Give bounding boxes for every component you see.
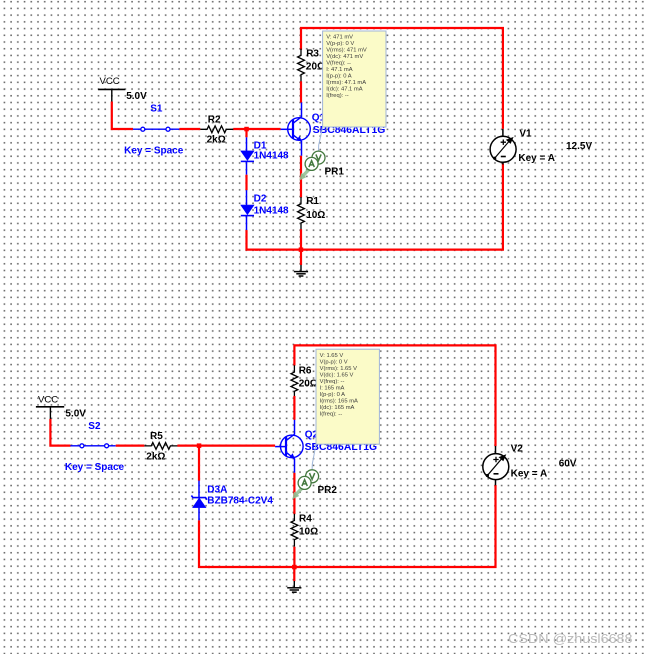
wire S1 to R2 xyxy=(179,128,200,130)
svg-text:V(dc): 1.65 V: V(dc): 1.65 V xyxy=(320,372,354,378)
transistor Q1 SBC846ALT1G xyxy=(288,102,311,156)
svg-text:VCC: VCC xyxy=(100,76,120,87)
resistor R3 body xyxy=(298,49,305,82)
svg-text:Key = A: Key = A xyxy=(511,469,548,480)
svg-text:R2: R2 xyxy=(208,115,221,126)
svg-text:I(rms): 165 mA: I(rms): 165 mA xyxy=(320,398,358,404)
power VCC symbol (bottom) xyxy=(36,407,64,419)
svg-text:R4: R4 xyxy=(299,514,312,525)
measurement box PR2 xyxy=(316,349,379,444)
resistor R5 body xyxy=(144,443,177,450)
svg-text:Key = Space: Key = Space xyxy=(124,145,184,156)
junction node at D3A branch xyxy=(197,443,202,448)
wire VCC to switch S2 xyxy=(50,419,70,446)
wire R2 to base node xyxy=(233,128,280,130)
D1 lower lead (blue) xyxy=(246,161,248,174)
D2 lower lead (blue) xyxy=(246,216,248,231)
svg-text:VCC: VCC xyxy=(38,395,58,406)
svg-text:10Ω: 10Ω xyxy=(306,210,325,221)
svg-text:I(freq): --: I(freq): -- xyxy=(326,93,349,99)
wire bottom rail (top circuit) xyxy=(255,164,503,250)
D3A upper lead (blue) xyxy=(198,481,200,498)
svg-text:I(rms): 47.1 mA: I(rms): 47.1 mA xyxy=(326,80,366,86)
ground symbol (top) xyxy=(294,265,308,276)
resistor R1 body xyxy=(298,197,305,230)
wire emitter down (Q2) xyxy=(293,473,295,514)
svg-text:V(p-p): 0 V: V(p-p): 0 V xyxy=(326,41,354,47)
svg-text:D3A: D3A xyxy=(207,484,227,495)
svg-text:1N4148: 1N4148 xyxy=(254,206,289,217)
svg-text:V: 1.65 V: V: 1.65 V xyxy=(320,353,344,359)
svg-text:I: 165 mA: I: 165 mA xyxy=(320,385,345,391)
diode D1 xyxy=(241,151,254,162)
svg-text:CSDN @zhusl6688: CSDN @zhusl6688 xyxy=(508,631,633,646)
svg-text:PR2: PR2 xyxy=(318,485,338,496)
svg-text:12.5V: 12.5V xyxy=(566,141,592,152)
source V1 xyxy=(490,129,516,165)
svg-text:V(freq): --: V(freq): -- xyxy=(326,61,351,67)
svg-text:V1: V1 xyxy=(519,129,532,140)
probe PR1 xyxy=(299,127,325,181)
svg-text:I: 47.1 mA: I: 47.1 mA xyxy=(326,67,353,73)
junction node at D1 branch xyxy=(244,127,249,132)
svg-text:V: 471 mV: V: 471 mV xyxy=(326,35,353,41)
junction node at ground xyxy=(299,247,304,252)
svg-text:I(dc): 165 mA: I(dc): 165 mA xyxy=(320,405,355,411)
svg-text:2kΩ: 2kΩ xyxy=(207,135,226,146)
wire D2 to bottom rail xyxy=(247,230,259,250)
wire R3 to collector xyxy=(300,81,302,102)
junction node at ground (bottom) xyxy=(292,565,297,570)
svg-text:PR1: PR1 xyxy=(325,167,345,178)
svg-text:R3: R3 xyxy=(306,49,319,60)
wire D3A to bottom rail xyxy=(199,520,210,567)
wire to ground (top) xyxy=(300,250,302,265)
wire node to D1 xyxy=(245,129,247,137)
probe PR2 xyxy=(292,444,318,499)
wire R5 to base node xyxy=(177,445,275,447)
svg-text:I(p-p): 0 A: I(p-p): 0 A xyxy=(320,392,346,398)
ground symbol (bottom) xyxy=(287,581,301,592)
svg-text:S1: S1 xyxy=(150,104,163,115)
wire VCC to switch S1 xyxy=(112,102,133,130)
resistor R6 body xyxy=(291,365,298,398)
svg-text:60V: 60V xyxy=(559,458,577,469)
svg-text:Key = A: Key = A xyxy=(518,153,555,164)
svg-text:D2: D2 xyxy=(254,193,267,204)
resistor R4 body xyxy=(291,514,298,547)
svg-text:I(dc): 47.1 mA: I(dc): 47.1 mA xyxy=(326,87,363,93)
svg-text:10Ω: 10Ω xyxy=(299,527,318,538)
svg-text:R1: R1 xyxy=(306,196,319,207)
D2 upper lead (blue) xyxy=(246,190,248,205)
switch S2 xyxy=(70,444,115,448)
svg-text:20Ω: 20Ω xyxy=(299,378,318,389)
svg-text:I(freq): --: I(freq): -- xyxy=(320,411,343,417)
svg-text:R6: R6 xyxy=(299,365,312,376)
wire R1 to bottom rail xyxy=(300,229,302,249)
diode D2 xyxy=(241,205,254,216)
wire top rail (collector to V1) xyxy=(301,28,503,129)
svg-text:BZB784-C2V4: BZB784-C2V4 xyxy=(207,495,273,506)
wire emitter down xyxy=(300,156,302,198)
wire top rail (bottom circuit) xyxy=(294,345,495,446)
wire R6 to collector xyxy=(293,396,295,420)
source V2 xyxy=(483,446,509,485)
wire D1 to D2 xyxy=(245,175,247,191)
svg-text:R5: R5 xyxy=(150,431,163,442)
svg-text:1N4148: 1N4148 xyxy=(254,151,289,162)
wire S2 to R5 xyxy=(116,445,145,447)
svg-text:2kΩ: 2kΩ xyxy=(146,451,165,462)
svg-text:5.0V: 5.0V xyxy=(65,408,86,419)
svg-text:V(rms): 471 mV: V(rms): 471 mV xyxy=(326,48,367,54)
wire to ground (bottom) xyxy=(293,567,295,581)
wire bottom rail (bottom circuit) xyxy=(208,485,496,567)
D3A lower lead (blue) xyxy=(198,508,200,521)
svg-text:V(dc): 471 mV: V(dc): 471 mV xyxy=(326,54,363,60)
measurement box PR1 xyxy=(323,31,386,127)
wire node down to D3A xyxy=(198,446,200,481)
resistor R2 body xyxy=(200,126,233,133)
svg-text:I(p-p): 0 A: I(p-p): 0 A xyxy=(326,74,352,80)
wire base lead Q2 (blue) xyxy=(275,446,286,448)
svg-text:V(rms): 1.65 V: V(rms): 1.65 V xyxy=(320,366,357,372)
svg-text:V2: V2 xyxy=(511,444,524,455)
svg-text:5.0V: 5.0V xyxy=(126,91,147,102)
svg-text:V(p-p): 0 V: V(p-p): 0 V xyxy=(320,359,348,365)
zener diode D3A xyxy=(191,496,207,508)
D1 lead (blue) xyxy=(246,137,248,151)
wire R4 to bottom rail xyxy=(293,547,295,567)
svg-text:V(freq): --: V(freq): -- xyxy=(320,379,345,385)
transistor Q2 SBC846ALT1G xyxy=(281,419,304,472)
wire base lead (blue) xyxy=(281,128,293,130)
svg-text:S2: S2 xyxy=(88,421,101,432)
svg-text:Key = Space: Key = Space xyxy=(65,462,125,473)
power VCC symbol (top) xyxy=(98,89,125,101)
switch S1 xyxy=(133,127,180,131)
